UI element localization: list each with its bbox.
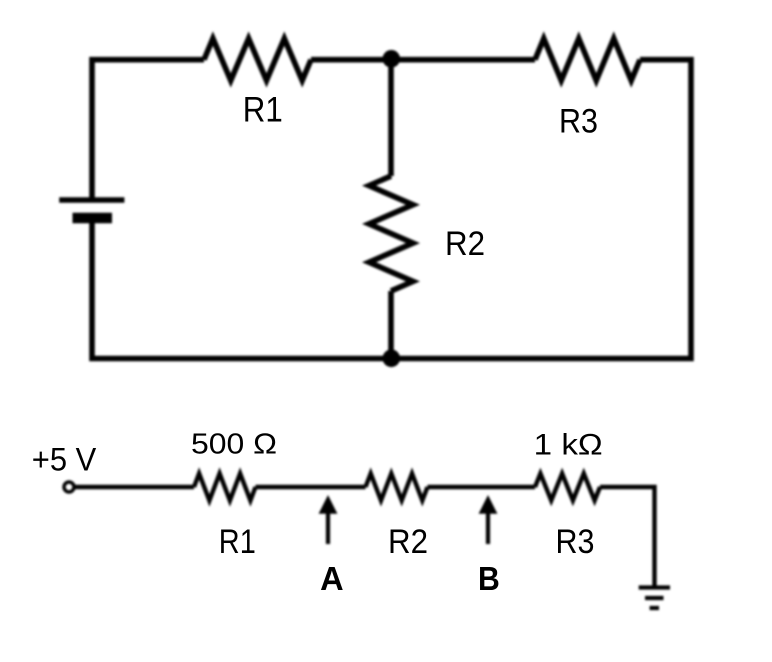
resistor R3 (bottom) [535, 474, 600, 501]
svg-text:B: B [478, 560, 500, 597]
battery V1 long plate [59, 197, 124, 203]
node junction bottom [383, 350, 401, 368]
svg-text:R2: R2 [388, 523, 428, 561]
wire between R1 and R2 [256, 485, 366, 489]
arrow node A [319, 495, 338, 544]
svg-text:R3: R3 [556, 523, 595, 561]
wire top middle [311, 57, 535, 63]
resistor R1 [204, 39, 311, 81]
resistor R3 [535, 39, 640, 81]
svg-text:500 Ω: 500 Ω [191, 429, 277, 461]
wire top right + right vertical + bottom [92, 60, 691, 359]
terminal +5V open circle [64, 482, 74, 492]
node junction top [383, 50, 401, 68]
wire R2 bottom lead [388, 291, 394, 359]
svg-text:+5 V: +5 V [32, 442, 97, 478]
resistor R2 (bottom) [366, 474, 428, 501]
wire from +5V terminal [73, 485, 194, 489]
battery V1 short plate [73, 213, 113, 224]
ground [639, 588, 670, 609]
svg-text:R1: R1 [219, 523, 256, 561]
resistor R2 [369, 176, 413, 291]
svg-text:R1: R1 [243, 90, 283, 129]
resistor R1 (bottom) [194, 474, 256, 501]
wire left vertical + top-left segment [92, 60, 204, 200]
svg-text:A: A [320, 560, 344, 597]
wire R2 top lead [388, 60, 394, 176]
wire R3 to ground [600, 487, 655, 588]
svg-text:R2: R2 [445, 225, 485, 263]
svg-text:R3: R3 [559, 103, 598, 141]
arrow node B [479, 495, 498, 544]
wire between R2 and R3 [428, 485, 536, 489]
svg-text:1 kΩ: 1 kΩ [534, 429, 603, 462]
